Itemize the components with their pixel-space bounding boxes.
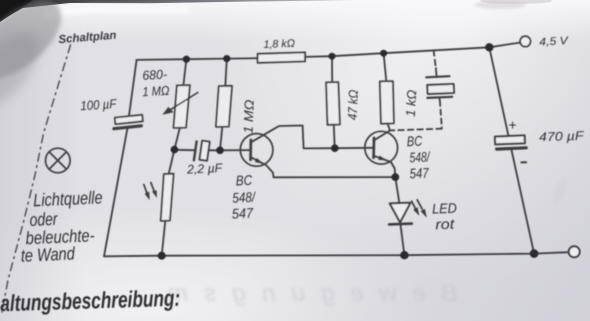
svg-text:BC: BC [235, 172, 253, 189]
svg-text:4,5 V: 4,5 V [539, 35, 570, 49]
svg-text:2,2 µF: 2,2 µF [186, 161, 224, 177]
svg-text:1,8 kΩ: 1,8 kΩ [263, 38, 295, 51]
svg-text:1 MΩ: 1 MΩ [241, 99, 257, 134]
svg-text:548/: 548/ [409, 148, 431, 165]
svg-text:548/: 548/ [232, 189, 257, 206]
svg-text:547: 547 [409, 165, 430, 182]
svg-text:100 µF: 100 µF [80, 96, 118, 113]
svg-text:470 µF: 470 µF [539, 129, 586, 145]
svg-text:rot: rot [435, 216, 456, 233]
svg-text:Bewegungsm: Bewegungsm [152, 280, 458, 307]
svg-text:1 kΩ: 1 kΩ [403, 89, 419, 117]
svg-text:+: + [509, 117, 517, 133]
svg-text:1 MΩ: 1 MΩ [142, 83, 170, 99]
svg-text:BC: BC [406, 133, 423, 150]
svg-text:te Wand: te Wand [20, 243, 76, 265]
svg-text:LED: LED [432, 200, 457, 217]
svg-text:Lichtquelle: Lichtquelle [33, 187, 103, 210]
svg-text:47 kΩ: 47 kΩ [345, 89, 361, 120]
svg-text:547: 547 [231, 205, 254, 222]
svg-text:680-: 680- [142, 67, 168, 83]
